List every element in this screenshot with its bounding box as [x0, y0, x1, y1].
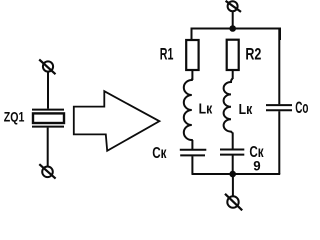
- terminal X2 (bottom-left, circle with slash): [39, 164, 55, 178]
- wire (Lk2 to Ck2): [232, 132, 234, 148]
- terminal X1 (top-left, circle with slash): [39, 60, 55, 75]
- resistor R2: [227, 40, 239, 70]
- svg-text:Lк: Lк: [199, 101, 213, 117]
- svg-text:ZQ1: ZQ1: [4, 108, 25, 124]
- wire (crystal bottom plate to bottom terminal): [47, 128, 49, 167]
- resistor R1: [186, 40, 198, 70]
- svg-text:Cк: Cк: [152, 145, 167, 162]
- capacitor Ck2: [220, 150, 244, 155]
- capacitor Ck1: [180, 150, 207, 156]
- wire (top terminal to node A): [232, 11, 234, 28]
- svg-text:R2: R2: [245, 45, 261, 64]
- wire (Ck1 to bottom rail): [191, 156, 193, 174]
- capacitor Co: [266, 105, 292, 110]
- svg-text:Cо: Cо: [295, 99, 308, 117]
- terminal X3 (top-right, circle with slash): [226, 1, 241, 12]
- wire (Lk1 to Ck1): [191, 140, 193, 149]
- wire (R2 to Lk2): [232, 70, 234, 79]
- crystal ZQ1: [32, 110, 64, 127]
- svg-text:9: 9: [253, 158, 260, 173]
- wire (top terminal to crystal top plate): [47, 72, 49, 109]
- terminal X4 (bottom-right, circle with slash): [225, 194, 242, 211]
- wire (node B to bottom terminal): [232, 174, 234, 196]
- wire (top rail): [192, 29, 281, 41]
- wire (Co to bottom rail): [278, 111, 280, 174]
- wire (bottom rail): [192, 173, 281, 175]
- svg-text:R1: R1: [160, 45, 174, 64]
- inductor Lk1: [184, 79, 193, 141]
- inductor Lk2: [224, 79, 233, 133]
- wire (R1 to Lk1): [191, 70, 193, 80]
- wire (Ck2 to node B): [232, 156, 234, 175]
- svg-text:Lк: Lк: [239, 101, 253, 118]
- wire (right branch drop to Co): [278, 29, 280, 105]
- arrow (equivalence, block arrow pointing right): [74, 91, 160, 151]
- node B (bottom junction dot): [229, 171, 236, 178]
- node A (top junction dot): [229, 25, 236, 32]
